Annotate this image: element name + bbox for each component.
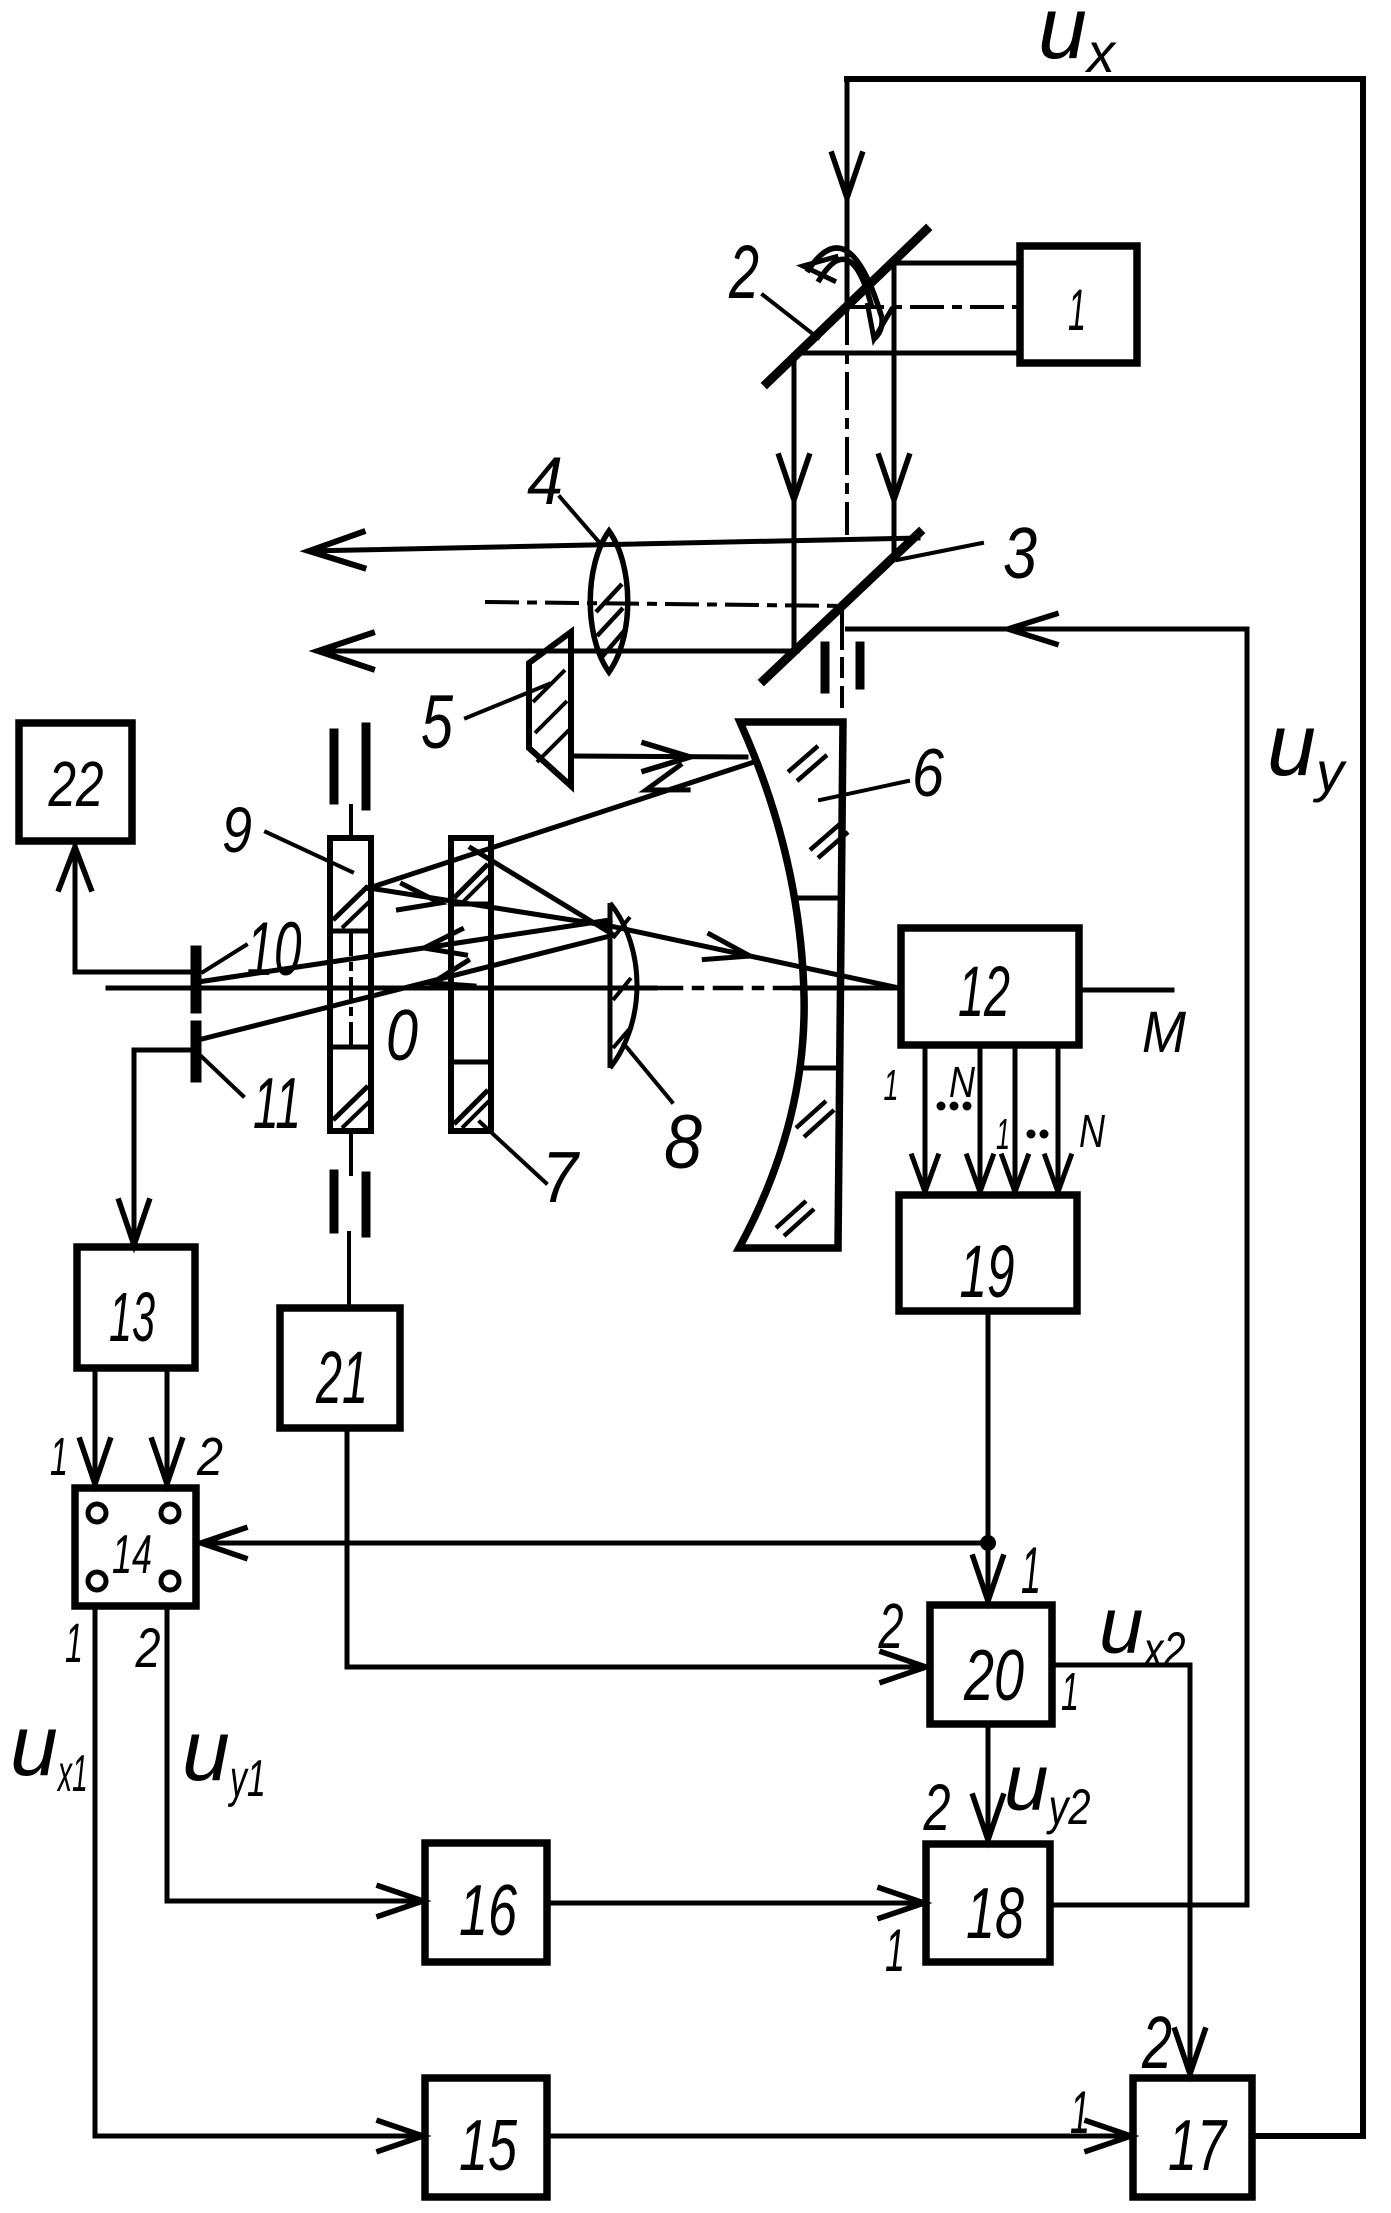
svg-text:3: 3	[1003, 514, 1037, 594]
svg-text:15: 15	[459, 2106, 518, 2186]
svg-text:2: 2	[1141, 2001, 1172, 2084]
svg-text:19: 19	[960, 1230, 1015, 1313]
svg-text:2: 2	[878, 1590, 904, 1662]
svg-text:4: 4	[527, 443, 563, 519]
svg-text:2: 2	[728, 230, 759, 315]
svg-text:ux2: ux2	[1099, 1581, 1186, 1678]
svg-text:21: 21	[315, 1336, 368, 1419]
svg-text:1: 1	[1070, 2079, 1090, 2146]
svg-text:14: 14	[112, 1523, 152, 1585]
svg-text:M: M	[1142, 1000, 1187, 1065]
svg-text:N: N	[1079, 1105, 1106, 1157]
svg-text:0: 0	[386, 996, 418, 1076]
svg-text:2: 2	[196, 1427, 223, 1487]
svg-text:13: 13	[109, 1278, 155, 1356]
svg-text:N: N	[949, 1058, 975, 1107]
svg-text:11: 11	[253, 1064, 301, 1144]
svg-text:6: 6	[912, 735, 944, 811]
svg-text:12: 12	[958, 953, 1010, 1032]
svg-text:ux1: ux1	[10, 1698, 88, 1803]
svg-text:1: 1	[65, 1611, 83, 1674]
svg-text:10: 10	[247, 907, 302, 992]
svg-text:20: 20	[963, 1636, 1024, 1716]
svg-text:uy: uy	[1267, 695, 1347, 803]
svg-text:uy2: uy2	[1004, 1738, 1091, 1835]
svg-text:uy1: uy1	[182, 1703, 266, 1808]
svg-text:1: 1	[1061, 1662, 1079, 1722]
svg-text:22: 22	[48, 748, 104, 820]
svg-text:17: 17	[1168, 2106, 1228, 2186]
svg-text:16: 16	[459, 1871, 518, 1951]
svg-text:9: 9	[222, 794, 252, 866]
svg-text:ux: ux	[1038, 0, 1117, 84]
svg-text:1: 1	[50, 1427, 68, 1487]
svg-text:1: 1	[884, 1061, 899, 1110]
svg-text:1: 1	[1021, 1533, 1041, 1607]
svg-text:5: 5	[421, 680, 454, 765]
svg-text:8: 8	[664, 1100, 702, 1185]
svg-text:18: 18	[966, 1874, 1024, 1954]
svg-text:1: 1	[996, 1110, 1010, 1159]
svg-text:1: 1	[1068, 278, 1086, 343]
svg-text:1: 1	[885, 1917, 905, 1984]
svg-text:2: 2	[135, 1616, 161, 1679]
svg-text:7: 7	[542, 1138, 581, 1218]
svg-text:2: 2	[923, 1770, 951, 1844]
